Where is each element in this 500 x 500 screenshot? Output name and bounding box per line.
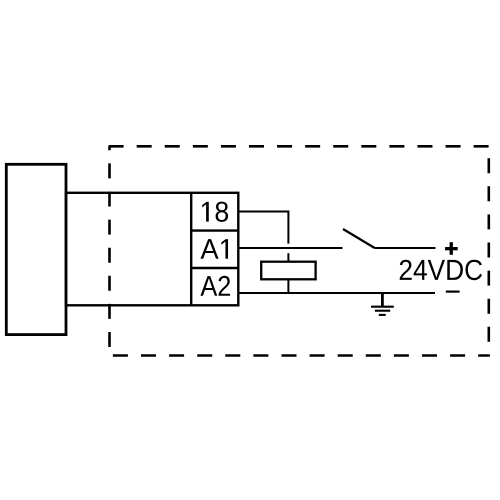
- wire segment from crossing down to coil: [287, 253, 289, 262]
- terminal divider 18/A1: [191, 229, 238, 231]
- ground symbol: [371, 293, 394, 315]
- wire from switch to supply plus: [375, 247, 436, 249]
- switch S1 blade: [343, 229, 375, 248]
- relay socket body (solid left block): [6, 164, 66, 334]
- dashed enclosure border: [109, 146, 490, 355]
- terminal label A1: [201, 239, 229, 259]
- supply plus sign: [445, 242, 458, 255]
- wire from terminal A1 to switch: [238, 247, 342, 249]
- relay module outline: [66, 193, 238, 305]
- terminal label A2: [200, 276, 230, 296]
- wire from terminal 18: [238, 212, 288, 244]
- wire from coil to A2 line: [287, 279, 289, 293]
- relay coil K1: [261, 262, 315, 280]
- terminal divider A1/A2: [191, 267, 238, 269]
- terminal column divider: [190, 193, 192, 305]
- terminal label 18: [202, 202, 228, 222]
- supply minus sign: [446, 291, 460, 293]
- wire from terminal A2 to supply minus: [238, 292, 435, 294]
- label 24VDC: [400, 260, 482, 281]
